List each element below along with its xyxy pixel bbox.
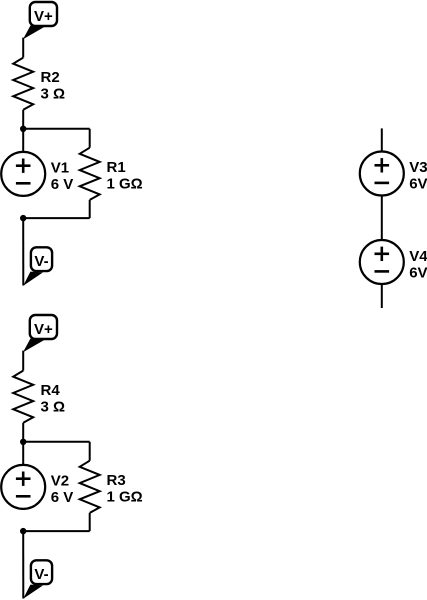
resistor R2	[13, 58, 33, 110]
net flag V+	[23, 315, 57, 352]
voltage source V3	[360, 152, 404, 196]
label V3 6V	[409, 159, 427, 193]
resistor R3	[80, 461, 100, 513]
wire	[22, 531, 24, 598]
svg-text:1 GΩ: 1 GΩ	[107, 489, 143, 506]
wire	[23, 530, 90, 532]
junction	[20, 126, 26, 132]
label R4 3 Ω	[41, 382, 66, 416]
wire	[22, 423, 24, 465]
svg-text:R3: R3	[107, 472, 126, 489]
junction	[20, 439, 26, 445]
voltage source V4	[360, 240, 404, 284]
voltage source V2	[1, 465, 45, 509]
wire	[381, 195, 383, 240]
wire	[89, 442, 91, 461]
label R3 1 GΩ	[107, 472, 143, 506]
net flag V-	[23, 560, 52, 599]
svg-text:V1: V1	[51, 159, 69, 176]
svg-text:3 Ω: 3 Ω	[41, 399, 66, 416]
wire	[89, 200, 91, 218]
voltage source V1	[1, 152, 45, 196]
wire	[381, 284, 383, 308]
svg-text:6 V: 6 V	[51, 489, 74, 506]
svg-text:R1: R1	[107, 159, 126, 176]
wire	[22, 351, 24, 371]
svg-text:6V: 6V	[409, 264, 427, 281]
label V2 6 V	[51, 472, 74, 506]
svg-text:V-: V-	[34, 253, 48, 270]
wire	[23, 441, 90, 443]
svg-text:V3: V3	[409, 159, 427, 176]
net flag V-	[23, 247, 52, 285]
svg-text:1 GΩ: 1 GΩ	[107, 176, 143, 193]
svg-text:V+: V+	[34, 8, 53, 25]
resistor R4	[13, 371, 33, 423]
wire	[22, 38, 24, 58]
label R2 3 Ω	[41, 69, 66, 103]
wire	[89, 129, 91, 148]
wire	[22, 218, 24, 285]
wire	[22, 110, 24, 152]
svg-text:V4: V4	[409, 248, 427, 265]
svg-text:6 V: 6 V	[51, 176, 74, 193]
wire	[23, 217, 90, 219]
svg-text:V2: V2	[51, 472, 69, 489]
net flag V+	[23, 2, 57, 39]
label V4 6V	[409, 248, 427, 281]
junction	[20, 528, 26, 534]
svg-text:V+: V+	[34, 321, 53, 338]
wire	[89, 513, 91, 531]
svg-text:R2: R2	[41, 69, 60, 86]
svg-text:6V: 6V	[409, 175, 427, 192]
svg-text:V-: V-	[34, 566, 48, 583]
svg-text:3 Ω: 3 Ω	[41, 86, 66, 103]
resistor R1	[80, 148, 100, 200]
wire	[381, 128, 383, 151]
svg-text:R4: R4	[41, 382, 61, 399]
label V1 6 V	[51, 159, 74, 193]
junction	[20, 215, 26, 221]
label R1 1 GΩ	[107, 159, 143, 193]
wire	[23, 128, 90, 130]
